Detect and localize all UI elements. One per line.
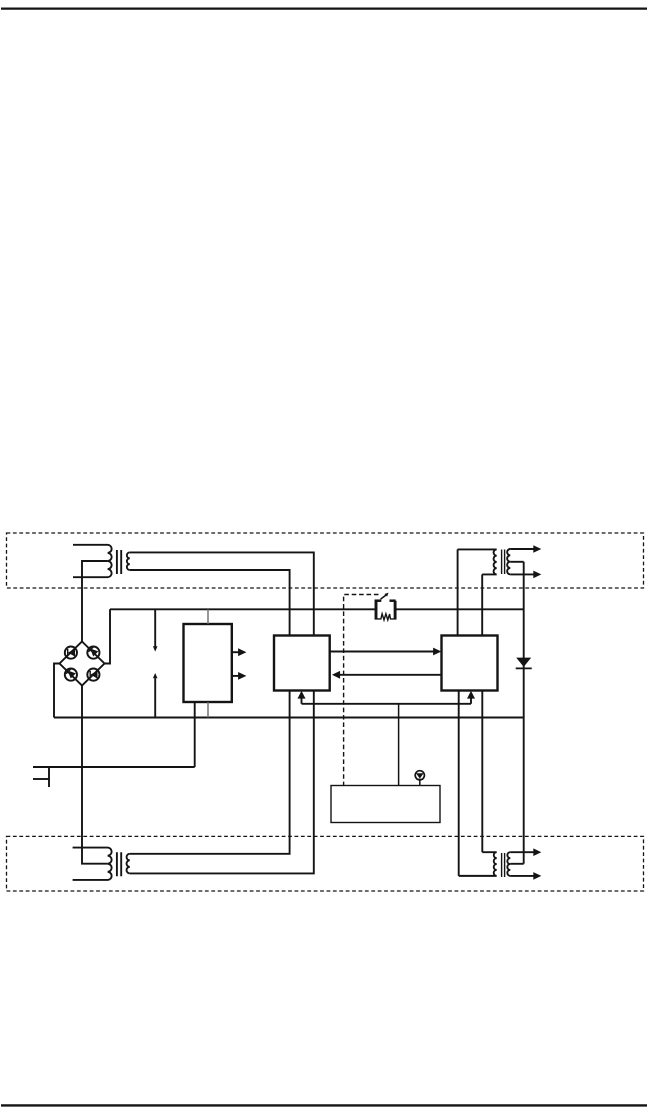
transformer T4 primary winding with leads (459, 852, 497, 876)
wire: T3 primary bottom lead down to U3 (481, 574, 483, 635)
bridge diode D-BR (90, 671, 97, 679)
bridge rectifier BR1: circles (65, 647, 100, 681)
transformer T4 secondary winding (507, 852, 510, 876)
wire: T1 secondary top lead down to converter block (130, 552, 314, 635)
transformer T3 core (502, 550, 505, 575)
wire: T3 primary top lead down to U3 (457, 549, 459, 635)
switch contact S1 lower arrow (153, 673, 158, 718)
wire: T2 secondary top lead up to U2 (130, 691, 290, 854)
wire: drive line from control block (302, 703, 472, 705)
transformer T3 secondary winding (507, 549, 510, 574)
wire: bridge left vertex to bottom bus (54, 664, 60, 718)
page footer rule (1, 1104, 647, 1106)
wire: T4 secondary centre tap (510, 863, 523, 865)
transformer T2 secondary winding (127, 854, 130, 874)
wire: T1 secondary bottom lead down to converter block (130, 570, 290, 636)
wire: T4 primary top lead up to U3 (481, 691, 483, 853)
block U2 (converter) (274, 636, 330, 691)
arrow: T4 secondary top output (510, 848, 541, 856)
wire: U1 bottom pin to bottom bus (207, 702, 209, 718)
wire: U1 bottom-left pin down to ground (194, 702, 196, 767)
bottom bus wire (54, 717, 524, 719)
transformer T2 primary winding with leads (73, 848, 112, 880)
arrow: drive into U3 bottom (467, 691, 475, 704)
arrow: drive into U2 bottom (298, 691, 306, 704)
transformer T1 core (117, 550, 121, 574)
switch contact S1 upper arrow (153, 609, 158, 651)
transformer T3 primary winding with leads (458, 549, 497, 574)
transformer T1 primary winding with leads (73, 545, 112, 577)
control block U4 (331, 786, 440, 823)
diode D1 (516, 658, 532, 669)
wire: bridge right vertex to top bus (105, 609, 111, 663)
arrow: U2 to U3 (330, 648, 442, 656)
thermal breaker F1 heater resistor (375, 614, 397, 620)
ground symbol (33, 767, 195, 787)
block U3 (inverter/driver) (442, 636, 498, 691)
thermal breaker F1 lever (381, 593, 389, 600)
thermal breaker F1 body (375, 600, 396, 620)
wire: T3 secondary centre tap (510, 561, 523, 563)
dashed box: top AC/output section (7, 533, 644, 588)
wire: T1 primary centre tap down to bridge + terminal (82, 561, 108, 642)
wire: T4 primary bottom lead up to U3 (458, 691, 460, 876)
arrow: T4 secondary bottom output (510, 872, 541, 880)
wire: control block to drive line (398, 704, 400, 786)
wire: T2 secondary bottom lead up to U2 (130, 691, 314, 874)
arrow: U1 output 2 (232, 672, 247, 680)
transformer T2 core (117, 852, 121, 876)
wire: U1 top pin from top bus (207, 609, 209, 624)
bridge diode D-TL (68, 649, 75, 657)
wire: T2 primary centre tap up to bridge - terminal (82, 686, 108, 864)
bridge diode D-TR (89, 647, 99, 657)
bridge diode D-BL (66, 669, 76, 679)
block U1 (input regulator) (184, 624, 232, 702)
top bus wire (left of breaker) (110, 608, 375, 610)
arrow: T3 secondary top output (510, 545, 541, 553)
bridge rectifier BR1 diamond (60, 642, 105, 686)
dashed control link: breaker to control block (344, 595, 379, 786)
dashed box: bottom output section (7, 836, 644, 891)
diode D1 wire (T3 tap down to T4 tap) (523, 562, 525, 864)
page header rule (1, 8, 647, 10)
transformer T1 secondary winding (127, 552, 130, 570)
arrow: T3 secondary bottom output (510, 571, 541, 579)
arrow: U3 to U2 (332, 671, 442, 679)
indicator LED on U4 (415, 771, 424, 786)
transformer T4 core (502, 853, 505, 877)
top bus wire (right of breaker) (396, 608, 523, 610)
arrow: U1 output 1 (232, 648, 247, 656)
